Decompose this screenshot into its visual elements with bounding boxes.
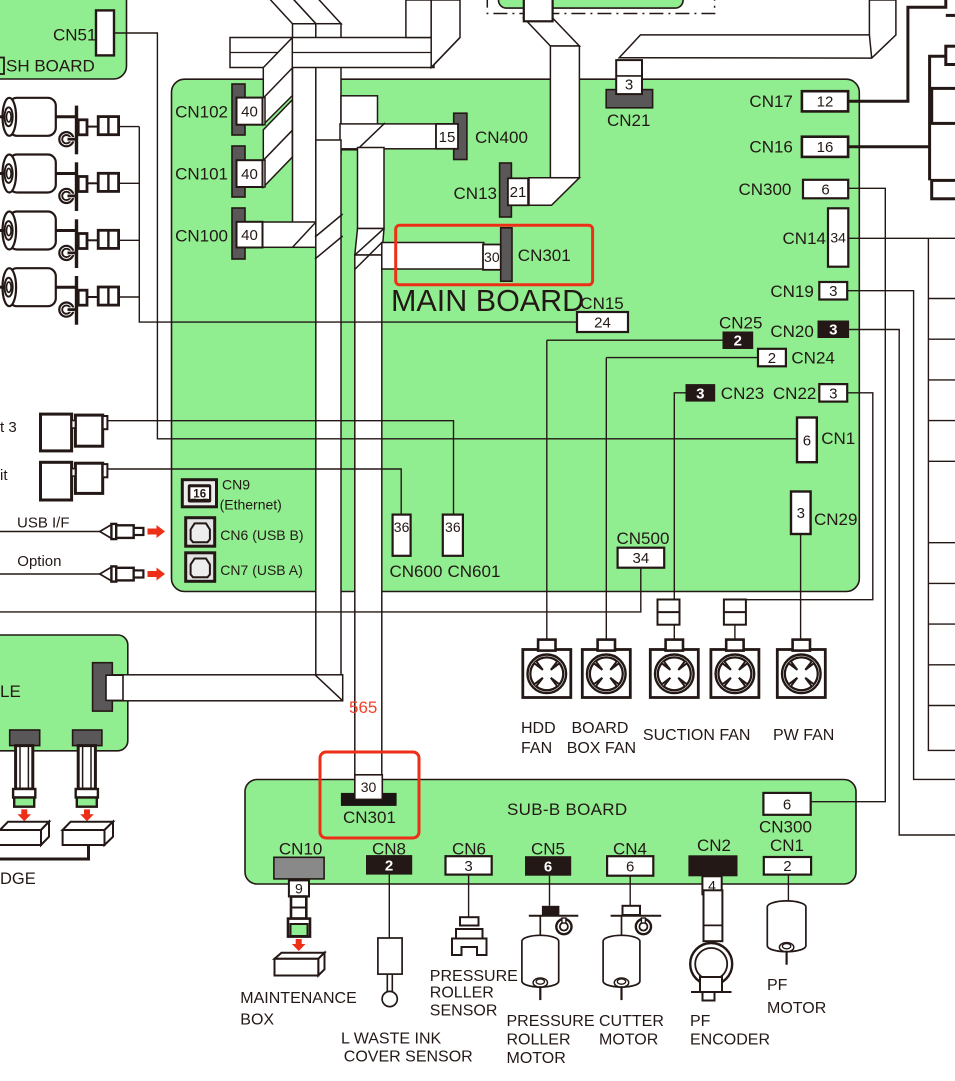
- svg-text:CN22: CN22: [773, 384, 816, 403]
- wire connector-to-bus: [119, 239, 140, 241]
- svg-text:BOARD: BOARD: [572, 720, 629, 737]
- CN500 pin count 34: [618, 548, 665, 568]
- CN19 pin count 3: [819, 282, 847, 300]
- ribbon: CN21 band to top right: [619, 0, 896, 58]
- svg-text:MAINTENANCE: MAINTENANCE: [240, 990, 356, 1007]
- pressure roller motor ring: [556, 918, 571, 934]
- motor (left pump/head motor), shaft y=173.5: [0, 155, 56, 193]
- svg-text:12: 12: [817, 94, 834, 111]
- svg-text:6: 6: [821, 181, 829, 198]
- motor shaft wire: [56, 286, 77, 289]
- pressure roller motor body: [522, 935, 559, 1000]
- wire suction fan 1 block to fan: [673, 625, 675, 640]
- svg-text:2: 2: [385, 857, 393, 874]
- wire CN22 to suction fan 2: [735, 393, 873, 600]
- CN15 pin count 24: [577, 312, 628, 332]
- svg-text:CN29: CN29: [814, 510, 857, 529]
- svg-text:6: 6: [803, 432, 811, 449]
- ribbon fold CN101 (diagonal parallelogram): [263, 100, 292, 187]
- motor shaft wire: [56, 229, 77, 232]
- Option plug icon: [100, 566, 144, 581]
- wire CN51 to CN1: [114, 33, 797, 439]
- wire Option: [0, 573, 100, 575]
- pressure roller motor bracket (black): [542, 906, 560, 915]
- CN10 pin count 9: [289, 880, 309, 896]
- svg-text:CN301: CN301: [343, 808, 396, 827]
- wire connector-to-bus: [119, 126, 140, 128]
- connector CN102 (bar): [232, 84, 245, 135]
- CN24 pin count 2: [758, 349, 786, 367]
- CN13 cable vertical strip: [550, 46, 579, 178]
- SUCTION fan 1: [650, 640, 698, 698]
- svg-text:CN601: CN601: [448, 562, 501, 581]
- HDD fan: [523, 640, 571, 698]
- connector CN6 USB B port icon: [186, 518, 215, 547]
- wire CN29 to PW fan: [800, 534, 802, 640]
- svg-text:(Ethernet): (Ethernet): [220, 497, 282, 513]
- strip L jog creases: [315, 214, 343, 237]
- unit connector pair: [41, 462, 108, 500]
- svg-text:CN6 (USB B): CN6 (USB B): [220, 527, 303, 543]
- svg-text:USB I/F: USB I/F: [17, 514, 70, 531]
- ribbon band from CN102/CN101 folds (horizontal, two cables): [230, 38, 434, 68]
- connector CN400 (bar): [454, 113, 467, 159]
- wire bar-to-connector: [87, 182, 98, 184]
- svg-text:Option: Option: [17, 553, 61, 570]
- svg-text:BOX: BOX: [240, 1011, 274, 1028]
- svg-text:FAN: FAN: [521, 740, 552, 757]
- CN13 cable bottom fold: [529, 178, 579, 206]
- svg-text:30: 30: [484, 249, 500, 265]
- connector CN301 sub (black bar): [341, 793, 397, 806]
- fold crease LE corner: [315, 675, 343, 701]
- CN8 pin count 2 (black): [366, 855, 412, 875]
- svg-text:3: 3: [829, 385, 837, 402]
- bus stub y=420.6: [928, 420, 955, 422]
- maintenance box plug stack: [288, 897, 310, 937]
- inline connector suction fan 1: [658, 600, 680, 625]
- svg-text:CN17: CN17: [749, 92, 792, 111]
- L waste ink cover sensor: [378, 938, 402, 1007]
- ribbon band midline: [230, 52, 434, 54]
- fold crease CN301 corner: [355, 243, 382, 270]
- svg-text:CN21: CN21: [607, 111, 650, 130]
- wire CN19 off page: [847, 291, 955, 780]
- ink cartridge 2 (3D box): [63, 822, 113, 845]
- cutter motor body: [603, 935, 640, 1000]
- connector on dashed-unit board: [524, 0, 553, 21]
- PF encoder ribbon: [704, 890, 723, 941]
- svg-text:40: 40: [241, 227, 258, 244]
- bus stub y=461.3: [928, 460, 955, 462]
- motor mounting bar: [75, 162, 78, 211]
- red arrow cartridge 2: [80, 809, 94, 821]
- svg-text:CN15: CN15: [580, 294, 623, 313]
- LE plug header 2: [73, 730, 102, 746]
- svg-text:CN24: CN24: [791, 349, 834, 368]
- ribbon: CN301 horizontal: [382, 243, 484, 270]
- svg-text:34: 34: [633, 550, 650, 567]
- wire motor bus to CN15: [139, 127, 577, 323]
- encoder ring: [59, 246, 76, 260]
- slot 3 connector pair: [41, 414, 108, 451]
- svg-text:HDD: HDD: [521, 720, 556, 737]
- svg-text:3: 3: [625, 77, 633, 94]
- connector CN13 (bar): [500, 163, 512, 217]
- CN1 pin count 6: [797, 418, 817, 463]
- encoder ring: [59, 189, 76, 203]
- ribbon: trunk cable (565) upper stub: [341, 96, 378, 150]
- bar tab: [78, 120, 87, 135]
- svg-text:40: 40: [241, 166, 258, 183]
- wire CN25 to HDD fan (vert): [546, 340, 548, 639]
- bus stub y=664.8: [928, 664, 955, 666]
- encoder ring: [59, 303, 76, 317]
- connector CN51: [96, 10, 114, 55]
- ribbon: strip L (LE cable) upper: [316, 24, 341, 154]
- svg-text:CN19: CN19: [770, 282, 813, 301]
- CN101 pin count 40: [237, 160, 263, 187]
- svg-text:6: 6: [626, 858, 634, 875]
- connector CN9 Ethernet jack icon: [182, 480, 216, 507]
- motor shaft wire: [56, 115, 77, 118]
- bus stub y=705.5: [928, 705, 955, 707]
- inline connector suction fan 2: [724, 600, 746, 625]
- svg-text:9: 9: [295, 880, 303, 896]
- ribbon: CN400 horizontal to trunk: [340, 124, 436, 149]
- fold crease CN100 corner: [293, 222, 317, 247]
- svg-text:PF: PF: [767, 977, 788, 994]
- connector CN21 (bar): [606, 90, 652, 108]
- wire CN500 off page left: [0, 568, 641, 612]
- svg-text:16: 16: [817, 139, 834, 156]
- wire unit to CN600: [107, 469, 401, 515]
- CN21 connector stack (blank cell + 3): [616, 60, 642, 94]
- connector CN101 (bar): [232, 146, 245, 197]
- svg-text:CN20: CN20: [770, 322, 813, 341]
- svg-text:CN500: CN500: [617, 529, 670, 548]
- svg-text:CN300: CN300: [738, 180, 791, 199]
- svg-text:CN14: CN14: [783, 229, 826, 248]
- BOARD BOX fan: [582, 640, 630, 698]
- connector CN100 (bar): [232, 208, 245, 259]
- wire connector-to-bus: [119, 296, 140, 298]
- USB I/F plug icon: [100, 524, 144, 539]
- ribbon strip a rising to top edge: [406, 0, 431, 38]
- ribbon: trunk upper strip (below CN400): [358, 148, 385, 229]
- LE ribbon head: [106, 675, 123, 700]
- svg-text:40: 40: [241, 104, 258, 121]
- pressure roller motor bar: [529, 915, 579, 917]
- ribbon fold CN102 (diagonal parallelogram): [263, 38, 292, 125]
- svg-text:BOX FAN: BOX FAN: [567, 740, 636, 757]
- CN1 sub pin count 2: [764, 857, 811, 875]
- svg-text:COVER SENSOR: COVER SENSOR: [344, 1048, 473, 1065]
- svg-text:LE: LE: [0, 682, 21, 701]
- svg-text:ROLLER: ROLLER: [507, 1032, 571, 1049]
- inline connector: [98, 117, 118, 135]
- inline connector: [98, 230, 118, 248]
- wire bar-to-connector: [87, 239, 98, 241]
- svg-text:CN301: CN301: [518, 246, 571, 265]
- CN29 pin count 3: [791, 492, 811, 535]
- CN2 pin count 4: [702, 876, 721, 894]
- CN25 pin count 2 (black): [723, 332, 754, 350]
- wire CN25 to HDD fan (horiz): [547, 339, 723, 341]
- CN301 sub pin count 30: [355, 775, 383, 800]
- fold diagonal of strip b: [431, 38, 460, 68]
- cutter motor bracket (white): [623, 906, 641, 915]
- svg-text:CN23: CN23: [721, 384, 764, 403]
- svg-text:CN100: CN100: [175, 227, 228, 246]
- svg-text:CN300: CN300: [759, 818, 812, 837]
- ribbon fold at top of LE strip: [292, 0, 341, 24]
- svg-text:CN16: CN16: [749, 138, 792, 157]
- ribbon: CN13 cable from top connector: [524, 18, 580, 46]
- small edge connector on flush board: [0, 58, 4, 75]
- svg-text:2: 2: [783, 858, 791, 875]
- CN400 pin count 15: [436, 124, 458, 149]
- ink supply plug at x=15.6: [13, 746, 35, 807]
- bar tab: [78, 177, 87, 192]
- red arrow USB I/F: [148, 525, 166, 538]
- svg-text:CN1: CN1: [821, 429, 855, 448]
- thick wire CN17 off page top: [848, 0, 946, 101]
- trunk jog crease: [355, 229, 384, 256]
- connector CN10 (gray): [274, 857, 324, 879]
- wire slot3 to CN601: [107, 421, 453, 515]
- svg-text:3: 3: [829, 322, 837, 339]
- wire CN14 to right bus: [848, 237, 955, 239]
- red highlight box around CN301 (main): [396, 225, 593, 284]
- CN100 pin count 40: [237, 222, 263, 248]
- motor mounting bar: [75, 219, 78, 268]
- svg-text:2: 2: [768, 350, 776, 367]
- connector box right edge (CN16 dest): [932, 180, 955, 198]
- svg-text:3: 3: [797, 505, 805, 522]
- wire CN300 main to CN300 sub: [810, 188, 885, 801]
- svg-text:6: 6: [544, 858, 552, 875]
- PW fan: [777, 640, 825, 698]
- svg-text:PRESSURE: PRESSURE: [430, 968, 518, 985]
- svg-text:SUCTION FAN: SUCTION FAN: [643, 727, 751, 744]
- ink cartridge 1 (3D box): [0, 822, 49, 845]
- svg-text:ENCODER: ENCODER: [690, 1032, 770, 1049]
- svg-text:30: 30: [361, 779, 377, 795]
- CN22 pin count 3: [819, 384, 847, 402]
- svg-text:DGE: DGE: [0, 870, 36, 888]
- CN21 band fold crease right: [869, 35, 871, 58]
- motor (left pump/head motor), shaft y=230.5: [0, 212, 56, 250]
- encoder ring: [59, 132, 76, 146]
- LE board connector bar: [93, 663, 113, 711]
- motor (left pump/head motor), shaft y=287.2: [0, 268, 56, 306]
- wire suction fan 2 block to fan: [734, 625, 736, 640]
- wire cartridge ID off page: [0, 845, 89, 859]
- CN301 pin count 30: [483, 245, 501, 270]
- svg-text:CUTTER: CUTTER: [599, 1013, 664, 1030]
- svg-text:CN400: CN400: [475, 128, 528, 147]
- pressure roller sensor icon: [452, 917, 487, 955]
- CN14 pin count 34: [828, 208, 848, 266]
- wire CN20 off page: [849, 330, 955, 836]
- LE plug header 1: [10, 730, 40, 746]
- wire CN24 to board box fan (horiz): [606, 357, 758, 359]
- wire CN4 to cutter motor: [629, 876, 631, 906]
- svg-text:SENSOR: SENSOR: [430, 1003, 498, 1020]
- svg-text:MOTOR: MOTOR: [507, 1050, 566, 1067]
- svg-text:21: 21: [510, 184, 527, 201]
- svg-text:CN51: CN51: [53, 26, 96, 45]
- svg-text:15: 15: [439, 129, 456, 146]
- svg-text:PF: PF: [690, 1013, 711, 1030]
- CN13 pin count 21: [508, 178, 528, 205]
- bus stub y=583.4: [928, 582, 955, 584]
- svg-text:PW FAN: PW FAN: [773, 727, 834, 744]
- cutter motor ring: [636, 918, 651, 934]
- CN17 pin count 12: [802, 91, 848, 111]
- ribbon: CN100 cable vertical strip to top edge: [293, 24, 317, 224]
- svg-text:16: 16: [193, 488, 206, 500]
- CN600 pin count 36: [393, 515, 411, 556]
- ink supply plug at x=78.2: [76, 746, 98, 807]
- fold crease CN101: [263, 130, 292, 160]
- svg-text:CN101: CN101: [175, 165, 228, 184]
- wire CN8 to waste ink sensor: [388, 875, 390, 938]
- board inside dashed frame: [499, 0, 684, 8]
- connector box right edge y46: [946, 46, 955, 64]
- PF encoder ring: [690, 943, 732, 1001]
- bus stub y=624.1: [928, 623, 955, 625]
- right bus vertical: [928, 238, 955, 750]
- svg-text:CN102: CN102: [175, 103, 228, 122]
- svg-text:MOTOR: MOTOR: [599, 1032, 658, 1049]
- motor shaft wire: [56, 172, 77, 175]
- svg-text:CN5: CN5: [531, 840, 565, 859]
- wire CN23 to suction fan 1: [674, 393, 685, 600]
- CN300 sub pin count 6: [763, 793, 810, 815]
- wire CN24 to board box fan (vert): [605, 358, 607, 640]
- wire bar-to-connector: [87, 126, 98, 128]
- svg-text:it: it: [0, 467, 8, 484]
- bar tab: [78, 234, 87, 249]
- svg-text:t 3: t 3: [0, 419, 17, 436]
- trunk jog fold: [355, 229, 384, 256]
- svg-text:24: 24: [594, 314, 611, 331]
- thick wire right-edge box bus: [930, 56, 946, 180]
- svg-text:3: 3: [696, 385, 704, 402]
- svg-text:CN13: CN13: [454, 184, 497, 203]
- ribbon stub CN102: [258, 98, 265, 125]
- CN4 pin count 6: [607, 856, 653, 876]
- svg-text:34: 34: [830, 230, 846, 246]
- ribbon strip b rising to top edge: [431, 0, 460, 68]
- ribbon: trunk lower strip (565 cable) down to SUB-B CN301: [355, 255, 382, 778]
- ribbon: strip L (LE cable): [316, 140, 341, 676]
- svg-text:565: 565: [349, 698, 377, 717]
- connector box right edge upper: [932, 88, 955, 123]
- inline connector: [98, 287, 118, 305]
- svg-text:3: 3: [464, 858, 472, 875]
- SUB-B BOARD (green): [245, 780, 856, 885]
- fold crease CN400 corner: [358, 123, 385, 149]
- red highlight box around CN301 (sub): [320, 752, 419, 838]
- motor mounting bar: [75, 106, 78, 155]
- svg-text:MAIN BOARD: MAIN BOARD: [391, 284, 584, 318]
- CN2 (black): [688, 855, 737, 876]
- wire bar-to-connector: [87, 296, 98, 298]
- cutter motor hanger: [621, 916, 623, 936]
- ribbon stub CN101: [258, 160, 265, 187]
- LE board (linear scale, left): [0, 635, 128, 751]
- svg-text:SH BOARD: SH BOARD: [6, 57, 95, 76]
- CN20 pin count 3 (black): [818, 321, 850, 339]
- wire CN5 to pressure roller motor: [549, 876, 551, 906]
- svg-text:MOTOR: MOTOR: [767, 1000, 826, 1017]
- svg-text:ROLLER: ROLLER: [430, 985, 494, 1002]
- red arrow maintenance box: [292, 939, 306, 951]
- CN102 pin count 40: [237, 98, 263, 125]
- wire CN1 sub to PF motor: [787, 875, 789, 901]
- motor (left pump/head motor), shaft y=116.8: [0, 98, 56, 136]
- thick wire CN16 to right bus: [848, 145, 930, 148]
- ribbon fold at top of CN100 strip: [269, 0, 316, 24]
- bus stub y=339.2: [928, 338, 955, 340]
- wire USB I/F: [0, 531, 100, 533]
- ribbon CN100 horizontal: [258, 222, 316, 247]
- wire CN6 to pressure roller sensor: [468, 875, 470, 917]
- CN300 pin count 6: [803, 180, 848, 199]
- wire connector-to-bus: [119, 182, 140, 184]
- FLUSH board (top-left, "SH BOARD"): [0, 0, 127, 79]
- cutter motor bar: [611, 915, 662, 917]
- svg-text:L WASTE INK: L WASTE INK: [341, 1030, 441, 1047]
- svg-text:3: 3: [829, 283, 837, 300]
- SUCTION fan 2: [711, 640, 759, 698]
- PF motor body: [767, 901, 806, 965]
- red arrow Option: [148, 568, 166, 581]
- dash-dot frame (optional unit, top): [487, 0, 714, 14]
- red arrow cartridge 1: [18, 809, 32, 821]
- svg-text:CN25: CN25: [719, 313, 762, 332]
- CN16 pin count 16: [802, 137, 848, 157]
- svg-text:SUB-B BOARD: SUB-B BOARD: [507, 800, 627, 819]
- bus stub y=542.7: [928, 542, 955, 544]
- svg-text:6: 6: [783, 796, 791, 813]
- svg-text:CN1: CN1: [770, 836, 804, 855]
- svg-text:PRESSURE: PRESSURE: [507, 1013, 595, 1030]
- svg-text:CN7 (USB A): CN7 (USB A): [220, 562, 302, 578]
- connector CN301 main (bar): [501, 228, 512, 281]
- bar tab: [78, 290, 87, 305]
- ribbon: LE board horizontal: [106, 675, 343, 701]
- MAIN BOARD (green): [172, 79, 860, 591]
- connector CN7 USB A port icon: [186, 553, 215, 582]
- svg-text:36: 36: [394, 519, 410, 535]
- motor mounting bar: [75, 276, 78, 325]
- svg-text:CN600: CN600: [390, 562, 443, 581]
- bus stub y=379.9: [928, 379, 955, 381]
- CN5 pin count 6 (black): [525, 856, 571, 876]
- bus stub y=298.5: [928, 298, 955, 300]
- svg-text:36: 36: [445, 519, 461, 535]
- CN601 pin count 36: [443, 515, 463, 556]
- pressure roller motor hanger: [539, 916, 541, 936]
- svg-text:CN10: CN10: [279, 840, 322, 859]
- maintenance box (3D box): [275, 953, 325, 976]
- wire stub top right edge: [946, 14, 955, 17]
- inline connector: [98, 173, 118, 191]
